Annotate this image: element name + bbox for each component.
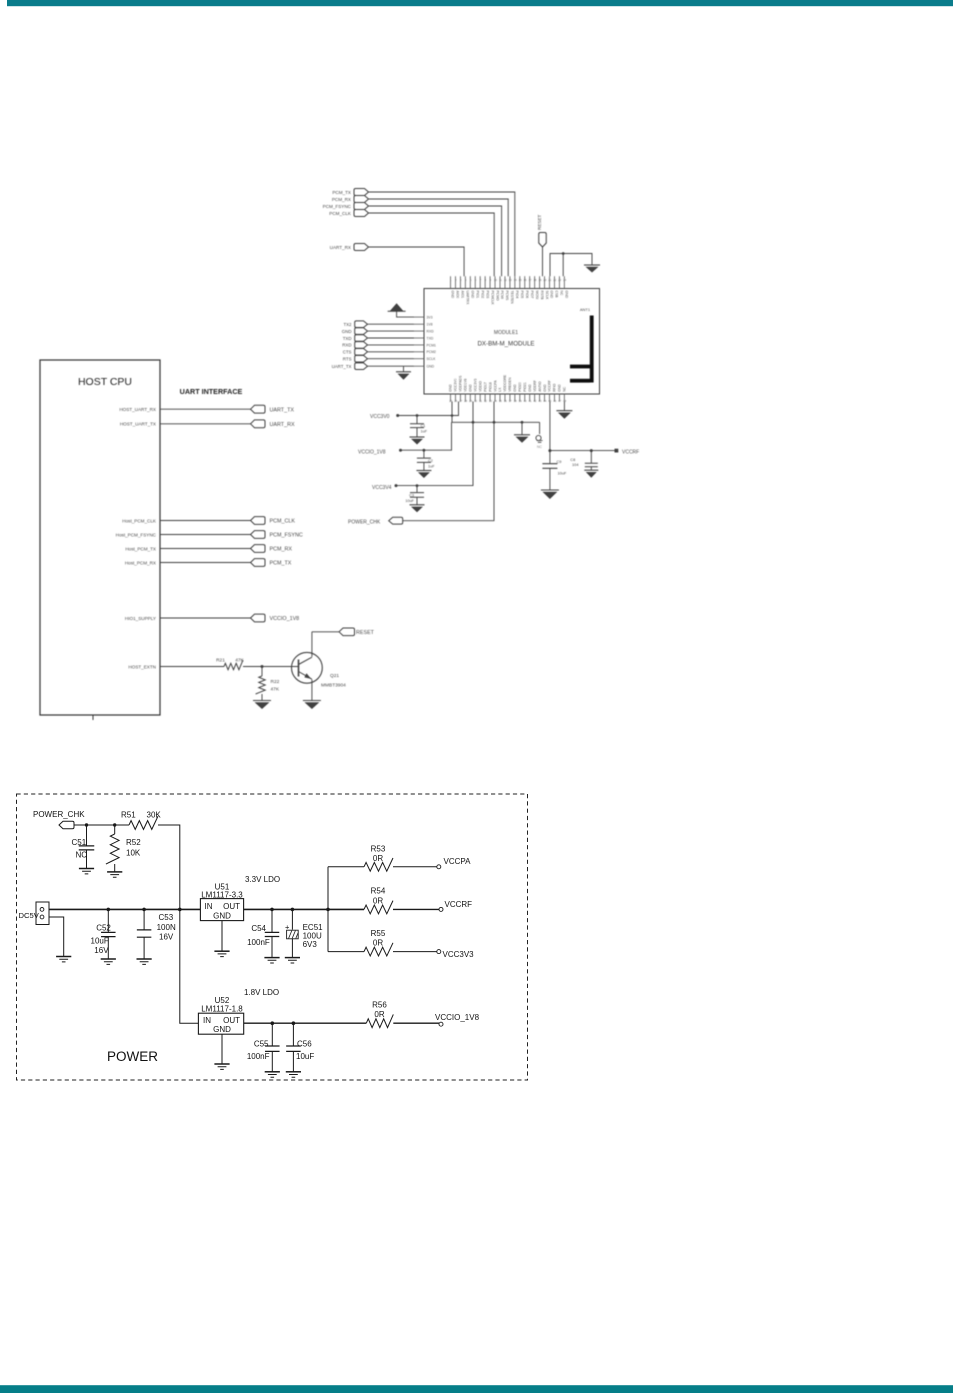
svg-text:R54: R54 <box>371 887 386 896</box>
wire <box>393 1022 439 1024</box>
svg-text:HOST CPU: HOST CPU <box>78 376 132 388</box>
HOST CPU bottom stub <box>92 715 94 720</box>
svg-text:LM1117-1.8: LM1117-1.8 <box>201 1005 243 1014</box>
wire <box>398 402 459 416</box>
svg-text:38: 38 <box>514 399 518 403</box>
wire <box>160 617 251 619</box>
resistor R22 47K <box>261 667 263 677</box>
svg-text:10uF: 10uF <box>558 471 567 476</box>
svg-text:VCC3V3: VCC3V3 <box>443 950 475 959</box>
svg-text:41: 41 <box>528 399 532 403</box>
svg-text:GND: GND <box>543 384 547 392</box>
net tag CTS (module left) <box>355 349 368 356</box>
module top pin 5 <box>469 276 471 288</box>
capacitor C9 <box>549 451 551 464</box>
module left pin 7 <box>414 358 424 360</box>
svg-text:C1: C1 <box>421 424 426 428</box>
svg-text:24: 24 <box>563 278 567 282</box>
svg-text:VCCIO_1V8: VCCIO_1V8 <box>435 1013 480 1022</box>
capacitor C52 10uF 16V <box>107 909 109 932</box>
svg-text:47: 47 <box>558 399 562 403</box>
capacitor C55 100nF <box>271 1023 273 1045</box>
svg-text:VCCRF: VCCRF <box>548 380 552 392</box>
ground <box>264 958 279 963</box>
module left pin 3 <box>414 330 424 332</box>
module bottom pin 12 <box>504 394 506 402</box>
net tag PCM_FSYNC <box>251 531 266 539</box>
ground <box>410 437 425 445</box>
svg-text:PCM_CLK: PCM_CLK <box>270 519 296 525</box>
svg-text:C2: C2 <box>428 459 433 463</box>
module U1 DX-BM-M_MODULE body <box>424 289 600 395</box>
svg-text:GND: GND <box>451 291 455 299</box>
svg-text:7: 7 <box>480 278 482 282</box>
ground <box>584 470 598 478</box>
ground <box>253 701 271 710</box>
header bar <box>7 0 953 6</box>
svg-text:43: 43 <box>538 399 542 403</box>
svg-text:37: 37 <box>509 399 513 403</box>
wire <box>368 365 415 367</box>
svg-text:4: 4 <box>465 278 467 282</box>
module bottom pin 22 <box>553 394 555 402</box>
wire <box>451 402 453 423</box>
svg-text:20: 20 <box>543 278 547 282</box>
svg-text:GND: GND <box>528 384 532 392</box>
module top pin 17 <box>529 276 531 288</box>
svg-text:PCMO: PCMO <box>495 291 499 302</box>
module bottom pin 23 <box>558 394 560 402</box>
svg-text:GND: GND <box>449 384 453 392</box>
svg-text:MOSI: MOSI <box>535 291 539 300</box>
svg-text:TXD: TXD <box>427 336 434 340</box>
svg-text:AIO1: AIO1 <box>461 291 465 299</box>
svg-text:TXD: TXD <box>343 336 352 341</box>
svg-text:C54: C54 <box>251 924 266 933</box>
module bottom pin 20 <box>544 394 546 402</box>
ground <box>416 471 431 479</box>
resistor R56 0R <box>366 1014 393 1027</box>
svg-text:C8: C8 <box>570 457 575 462</box>
svg-text:AIO0: AIO0 <box>456 291 460 299</box>
ground <box>265 1072 280 1077</box>
ground <box>214 951 229 956</box>
module top pin 4 <box>464 276 466 288</box>
svg-text:R22: R22 <box>271 679 280 685</box>
svg-text:PCM_RX: PCM_RX <box>270 547 293 553</box>
module bottom pin 13 <box>509 394 511 402</box>
module bottom pin 19 <box>539 394 541 402</box>
svg-text:35: 35 <box>499 399 503 403</box>
wire <box>368 358 415 360</box>
module top pin 1 <box>450 276 452 288</box>
svg-text:0R: 0R <box>373 854 383 863</box>
net tag PCM_FSYNC <box>354 203 369 210</box>
svg-text:C55: C55 <box>254 1039 269 1048</box>
svg-text:39: 39 <box>519 399 523 403</box>
svg-text:VCC3V0: VCC3V0 <box>370 414 390 420</box>
svg-text:16V: 16V <box>94 946 109 955</box>
svg-text:19: 19 <box>538 278 542 282</box>
svg-text:PIO1: PIO1 <box>475 291 479 299</box>
svg-text:0R: 0R <box>373 939 383 948</box>
net tag PCM_CLK <box>354 210 369 217</box>
svg-text:21: 21 <box>548 278 552 282</box>
wire <box>493 402 495 423</box>
module top pin 2 <box>454 276 456 288</box>
node junction <box>271 1021 275 1025</box>
svg-text:10uF: 10uF <box>405 499 414 503</box>
capacitor C53 100N 16V <box>143 909 145 929</box>
capacitor C3 <box>416 484 419 487</box>
svg-text:UART_TX: UART_TX <box>332 364 352 369</box>
module bottom pin 17 <box>529 394 531 402</box>
module bottom pin 21 <box>549 394 551 402</box>
svg-text:GND: GND <box>342 329 352 334</box>
module top pin 21 <box>549 276 551 288</box>
wire <box>542 247 544 276</box>
svg-text:NC: NC <box>76 851 88 860</box>
node base junction <box>261 665 264 668</box>
svg-text:IN: IN <box>205 902 213 911</box>
module top pin 12 <box>504 276 506 288</box>
module top pin 3 <box>459 276 461 288</box>
svg-text:NC: NC <box>537 445 542 449</box>
svg-text:VCCRF: VCCRF <box>622 449 639 455</box>
svg-text:32: 32 <box>484 399 488 403</box>
module bottom pin 7 <box>479 394 481 402</box>
module bottom pin 16 <box>524 394 526 402</box>
module top pin 10 <box>494 276 496 288</box>
svg-text:PIO2: PIO2 <box>480 291 484 299</box>
svg-text:GND: GND <box>550 291 554 299</box>
svg-text:PIO3: PIO3 <box>485 291 489 299</box>
svg-text:31: 31 <box>479 399 483 403</box>
module top pin 16 <box>524 276 526 288</box>
svg-text:8: 8 <box>485 278 487 282</box>
terminal VCCPA <box>437 865 441 869</box>
terminal VCCIO_1V8 <box>439 1022 443 1026</box>
svg-text:VDD1V8: VDD1V8 <box>464 378 468 391</box>
svg-text:GND: GND <box>558 384 562 392</box>
POWER section dashed border <box>17 794 528 1080</box>
svg-text:16: 16 <box>523 278 527 282</box>
svg-text:VCC3V0: VCC3V0 <box>454 378 458 391</box>
wire U52 gnd <box>221 1034 223 1064</box>
svg-text:RSTB: RSTB <box>540 291 544 301</box>
net tag UART_RX <box>251 420 266 428</box>
capacitor C1 <box>416 414 419 417</box>
svg-text:TESTEN: TESTEN <box>510 291 514 305</box>
net tag RESET <box>339 628 355 636</box>
svg-text:UART_RX: UART_RX <box>270 422 295 428</box>
module top pin 19 <box>539 276 541 288</box>
net tag RXD (module left) <box>355 342 368 349</box>
svg-text:16V: 16V <box>159 933 174 942</box>
svg-text:10uF: 10uF <box>296 1052 314 1061</box>
ground <box>541 490 559 499</box>
wire <box>261 694 263 701</box>
svg-text:22: 22 <box>553 278 557 282</box>
module bottom pin 1 <box>450 394 452 402</box>
svg-text:U52: U52 <box>215 996 230 1005</box>
module bottom pin 18 <box>534 394 536 402</box>
svg-text:NC: NC <box>560 291 564 296</box>
svg-text:1: 1 <box>450 278 452 282</box>
module bottom pin 15 <box>519 394 521 402</box>
svg-text:R51: R51 <box>121 811 136 820</box>
svg-text:NC: NC <box>563 386 567 391</box>
terminal VCCRF <box>439 907 443 911</box>
svg-text:VDDRF: VDDRF <box>533 380 537 392</box>
resistor R54 0R <box>364 901 393 914</box>
svg-text:11: 11 <box>499 278 502 282</box>
svg-text:C53: C53 <box>159 913 174 922</box>
svg-text:GND: GND <box>213 912 231 921</box>
transistor Q21 MMBT3904 <box>292 652 323 683</box>
svg-text:PCMS: PCMS <box>505 291 509 302</box>
svg-text:3.3V LDO: 3.3V LDO <box>245 875 280 884</box>
svg-text:Host_PCM_RX: Host_PCM_RX <box>125 560 156 565</box>
wire <box>562 254 564 277</box>
node junction <box>270 908 274 912</box>
wire emitter <box>311 680 313 701</box>
svg-text:VDDIO: VDDIO <box>478 381 482 392</box>
svg-text:PCM2: PCM2 <box>427 350 437 354</box>
net tag VCCIO_1V8 <box>251 614 266 622</box>
svg-text:1.8V LDO: 1.8V LDO <box>244 988 279 997</box>
module bottom pin 3 <box>459 394 461 402</box>
svg-text:GND: GND <box>469 384 473 392</box>
ground <box>303 701 321 710</box>
svg-text:VCCIO_1V8: VCCIO_1V8 <box>270 616 300 622</box>
svg-text:UART INTERFACE: UART INTERFACE <box>180 387 243 396</box>
svg-text:18: 18 <box>533 278 537 282</box>
ground <box>101 959 116 964</box>
net tag PCM_CLK <box>251 517 266 525</box>
wire 3.3V rail <box>244 908 328 910</box>
terminal VCC3V3 <box>437 950 441 954</box>
svg-text:PIO4: PIO4 <box>515 291 519 299</box>
svg-text:0R: 0R <box>373 896 383 905</box>
svg-text:VDDCORE: VDDCORE <box>503 374 507 392</box>
svg-text:6: 6 <box>475 278 477 282</box>
ground <box>214 1064 229 1069</box>
wire <box>368 323 415 325</box>
svg-text:OUT: OUT <box>223 902 240 911</box>
svg-text:42: 42 <box>533 399 537 403</box>
wire <box>393 951 437 953</box>
svg-text:PCM_FSYNC: PCM_FSYNC <box>323 204 352 209</box>
svg-text:1uF: 1uF <box>421 430 428 434</box>
svg-text:LM1117-3.3: LM1117-3.3 <box>201 891 243 900</box>
regulator U51 LM1117-3.3 <box>200 899 243 921</box>
svg-text:VCCPA: VCCPA <box>493 380 497 392</box>
svg-text:LX: LX <box>498 387 502 392</box>
svg-text:Host_PCM_FSYNC: Host_PCM_FSYNC <box>116 532 157 537</box>
svg-text:40: 40 <box>523 399 527 403</box>
wire <box>368 337 415 339</box>
wire <box>160 534 251 536</box>
svg-text:Host_PCM_TX: Host_PCM_TX <box>125 546 156 551</box>
svg-text:RTS: RTS <box>343 357 352 362</box>
wire 1.8V rail <box>244 1022 367 1024</box>
svg-text:RXD: RXD <box>427 330 435 334</box>
capacitor C8 <box>590 449 593 452</box>
svg-text:ANT1: ANT1 <box>580 307 591 312</box>
svg-text:0R: 0R <box>374 1010 384 1019</box>
svg-text:PIO6: PIO6 <box>525 291 529 299</box>
svg-text:GND: GND <box>213 1025 231 1034</box>
svg-text:IN: IN <box>203 1016 211 1025</box>
svg-text:GND: GND <box>565 291 569 299</box>
svg-text:GND: GND <box>427 365 435 369</box>
module top pin 15 <box>519 276 521 288</box>
svg-text:UART_TX: UART_TX <box>270 407 295 413</box>
svg-text:PCMI: PCMI <box>500 291 504 300</box>
ground <box>107 872 122 877</box>
svg-text:RFIO: RFIO <box>553 383 557 391</box>
node junction <box>107 908 111 912</box>
svg-text:10uF: 10uF <box>91 936 109 945</box>
svg-text:UART_RX: UART_RX <box>330 245 351 250</box>
module top pin 20 <box>544 276 546 288</box>
svg-text:27: 27 <box>459 399 463 403</box>
net label VCCRF (module) <box>615 449 619 453</box>
resistor R52 10K <box>114 825 116 834</box>
svg-text:100nF: 100nF <box>247 1052 270 1061</box>
module left pin 8 <box>414 365 424 367</box>
svg-text:GND: GND <box>471 291 475 299</box>
net tag PCM_TX <box>354 189 369 196</box>
wire <box>243 666 299 668</box>
ground <box>285 958 300 963</box>
svg-text:ANTIO: ANTIO <box>538 381 542 392</box>
svg-text:PIO7: PIO7 <box>530 291 534 299</box>
svg-text:PCM_TX: PCM_TX <box>332 190 351 195</box>
node junction <box>85 823 88 826</box>
wire <box>160 408 251 410</box>
svg-text:R55: R55 <box>371 929 386 938</box>
wire <box>160 666 224 668</box>
svg-text:3V3: 3V3 <box>427 316 433 320</box>
capacitor C56 10uF <box>292 1023 294 1045</box>
module top pin 7 <box>479 276 481 288</box>
svg-text:10K: 10K <box>126 849 141 858</box>
svg-text:C51: C51 <box>72 838 87 847</box>
svg-text:PIO5: PIO5 <box>520 291 524 299</box>
svg-text:POWER: POWER <box>107 1049 158 1064</box>
svg-text:RESET: RESET <box>537 214 542 230</box>
module left pin 5 <box>414 344 424 346</box>
net tag GND (module left) <box>355 328 368 335</box>
svg-text:PCMCLK: PCMCLK <box>490 291 494 306</box>
capacitor C54 100nF <box>271 909 273 932</box>
svg-text:2: 2 <box>455 278 457 282</box>
NC stub circle <box>539 422 541 434</box>
wire <box>328 908 364 910</box>
module bottom pin 5 <box>469 394 471 402</box>
resistor R21 47K <box>224 660 243 670</box>
module left pin 6 <box>414 351 424 353</box>
wire <box>396 422 473 485</box>
net tag PCM_RX <box>251 545 266 553</box>
svg-text:VCC3V4: VCC3V4 <box>372 485 392 491</box>
ground <box>137 959 152 964</box>
net tag UART_TX (module left) <box>355 363 368 370</box>
module top pin 9 <box>489 276 491 288</box>
wire <box>368 344 415 346</box>
svg-text:6V3: 6V3 <box>303 940 318 949</box>
svg-text:VREGEN: VREGEN <box>508 377 512 392</box>
wire <box>49 917 64 956</box>
wire <box>158 825 180 909</box>
module top pin 18 <box>534 276 536 288</box>
capacitor EC51 100U 6V3 (electrolytic) <box>291 909 293 929</box>
wire <box>369 213 495 276</box>
wire U51 gnd <box>221 921 223 951</box>
svg-text:POWER_CHK: POWER_CHK <box>348 519 381 525</box>
svg-text:15: 15 <box>519 278 523 282</box>
net tag UART_TX <box>251 405 266 413</box>
svg-text:HOST_UART_RX: HOST_UART_RX <box>119 407 156 412</box>
svg-text:PIO20: PIO20 <box>518 382 522 392</box>
wire U52 in <box>180 909 199 1023</box>
net tag PCM_TX <box>251 559 266 567</box>
wire <box>160 423 251 425</box>
module bottom pin 8 <box>484 394 486 402</box>
svg-text:12: 12 <box>504 278 508 282</box>
HOST CPU block U100 <box>40 360 160 715</box>
wire <box>472 402 474 423</box>
module bottom pin 10 <box>494 394 496 402</box>
wire gnd bus top <box>550 254 592 277</box>
ground (pin 41) <box>563 402 565 411</box>
module bottom pin 6 <box>474 394 476 402</box>
svg-text:1uF: 1uF <box>428 465 435 469</box>
ground <box>286 1072 301 1077</box>
module bottom pin 4 <box>464 394 466 402</box>
ground <box>584 265 600 273</box>
svg-text:28: 28 <box>464 399 468 403</box>
ground <box>410 505 425 513</box>
svg-text:POWER_CHK: POWER_CHK <box>33 810 85 819</box>
svg-text:TX2: TX2 <box>343 322 352 327</box>
regulator U52 LM1117-1.8 <box>198 1013 243 1034</box>
module top pin 13 <box>509 276 511 288</box>
module bottom pin 24 <box>563 394 565 402</box>
svg-text:HIO1_SUPPLY: HIO1_SUPPLY <box>125 616 156 621</box>
capacitor C2 <box>423 449 426 452</box>
wire <box>368 330 415 332</box>
svg-text:5: 5 <box>470 278 472 282</box>
wire <box>368 351 415 353</box>
svg-text:29: 29 <box>469 399 473 403</box>
svg-text:SCLK: SCLK <box>545 291 549 301</box>
svg-text:26: 26 <box>454 399 458 403</box>
svg-text:PCM_TX: PCM_TX <box>270 561 292 567</box>
svg-text:R53: R53 <box>371 845 386 854</box>
resistor R53 0R <box>364 858 393 871</box>
svg-text:PCM_CLK: PCM_CLK <box>329 211 352 216</box>
net tag RESET (vertical) <box>539 233 547 248</box>
wire <box>160 562 251 564</box>
resistor R55 0R <box>364 943 393 956</box>
svg-text:13: 13 <box>509 278 513 282</box>
ground (module left) <box>403 366 405 372</box>
ground (bus) <box>521 422 523 435</box>
svg-text:UARTRX: UARTRX <box>466 291 470 306</box>
